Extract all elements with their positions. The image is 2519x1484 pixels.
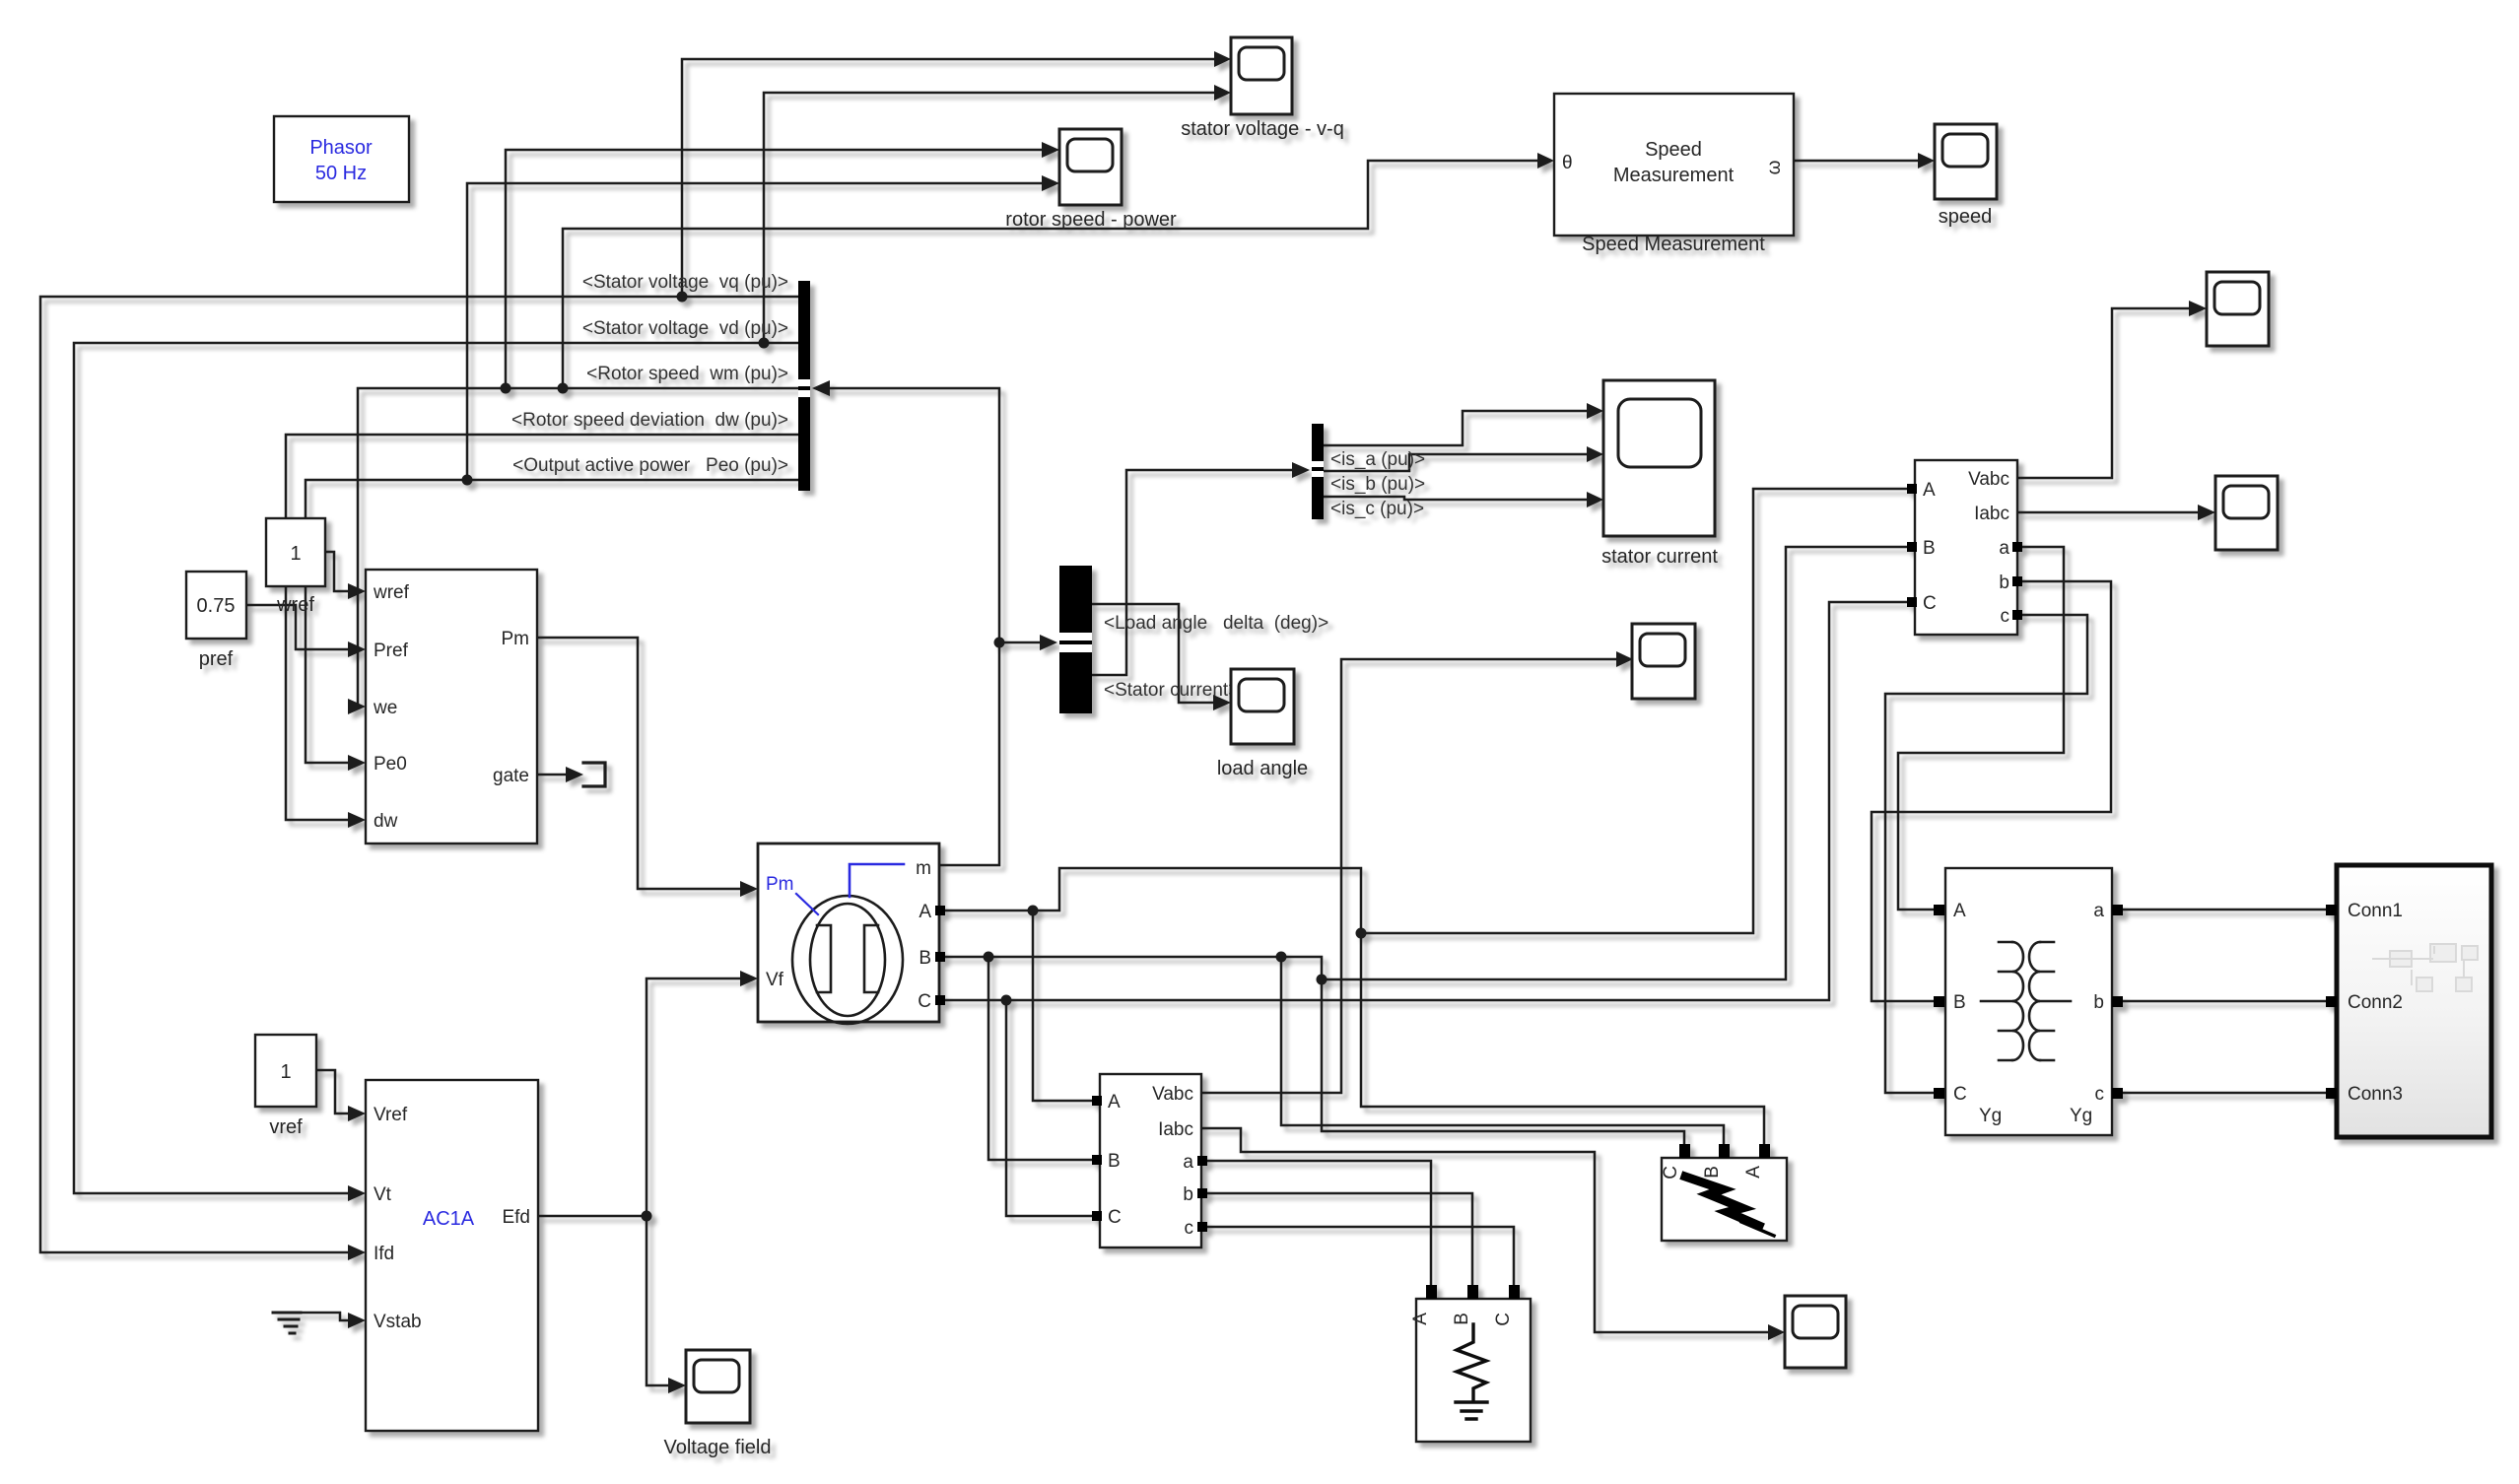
wire B1 Iabc to scope8	[1201, 1128, 1772, 1332]
svg-text:<is_a (pu)>: <is_a (pu)>	[1330, 449, 1425, 470]
svg-text:b: b	[1999, 573, 2009, 593]
svg-text:0.75: 0.75	[197, 595, 236, 617]
arrow into bus2	[1040, 635, 1057, 650]
svg-text:Vabc: Vabc	[1968, 469, 2009, 490]
svg-text:B: B	[1923, 538, 1936, 559]
svg-text:wref: wref	[276, 594, 314, 616]
junction m-bus to bus selector 2	[994, 638, 1005, 648]
svg-text:a: a	[1999, 538, 2009, 559]
right winding	[2029, 942, 2071, 1060]
arrow voltage field scope	[668, 1378, 686, 1393]
svg-text:C: C	[918, 991, 931, 1012]
svg-text:b: b	[1183, 1184, 1193, 1205]
svg-text:stator current: stator current	[1601, 546, 1718, 568]
svg-text:Pref: Pref	[374, 641, 409, 661]
wire B1 b to load B	[1201, 1193, 1472, 1289]
Bus Selector 1	[798, 281, 810, 491]
svg-text:stator voltage - v-q: stator voltage - v-q	[1181, 118, 1344, 140]
svg-text:Yg: Yg	[2070, 1106, 2092, 1126]
svg-text:C: C	[1108, 1207, 1122, 1228]
svg-text:Vstab: Vstab	[374, 1312, 422, 1332]
svg-text:c: c	[2001, 606, 2010, 627]
wire bus2 out1 (load angle) to load angle scope	[1092, 604, 1218, 703]
junction dots	[462, 292, 1367, 1222]
wire governor Pm to machine Pm	[537, 638, 745, 889]
wire bus3 is_a to stator current scope	[1324, 411, 1591, 445]
svg-text:Vt: Vt	[374, 1184, 392, 1205]
svg-text:AC1A: AC1A	[423, 1208, 475, 1230]
svg-text:C: C	[1661, 1166, 1681, 1180]
scope8	[1785, 1296, 1846, 1368]
svg-text:B: B	[919, 948, 931, 969]
bus1 signal labels	[511, 272, 788, 476]
svg-text:Conn2: Conn2	[2348, 992, 2403, 1013]
junction wm row to scope	[501, 383, 511, 394]
scope3	[2207, 272, 2269, 346]
svg-text:B: B	[1452, 1313, 1472, 1325]
svg-text:pref: pref	[199, 648, 234, 670]
svg-text:C: C	[1923, 593, 1937, 614]
scope6 (Vabc)	[1632, 624, 1695, 699]
svg-text:Ifd: Ifd	[374, 1244, 394, 1264]
governor block	[366, 570, 537, 843]
wire bus1 vq row to AC1A Ifd	[40, 297, 800, 1252]
arrow into bus1 (points left)	[812, 380, 830, 396]
svg-text:Iabc: Iabc	[1158, 1119, 1193, 1140]
signal arrowheads	[348, 51, 2215, 1393]
wire phase B branch to B1.B	[988, 957, 1096, 1160]
wire bus1 Peo row to governor Pe0	[306, 480, 800, 763]
wire bus1 wm row to governor we	[353, 388, 800, 707]
junction phase A to B1	[1028, 906, 1039, 916]
svg-text:C: C	[1953, 1084, 1967, 1105]
wire B1 c to load C	[1201, 1227, 1514, 1289]
wire B2 c to transformer C	[1885, 615, 2087, 1093]
wire phase C branch to B1.C	[1006, 1000, 1096, 1216]
svg-text:<Rotor speed wm (pu)>: <Rotor speed wm (pu)>	[586, 364, 788, 384]
svg-text:<Output active power Peo (pu: <Output active power Peo (pu)>	[512, 455, 788, 476]
junction phase B to B1	[984, 952, 994, 963]
svg-text:load angle: load angle	[1217, 758, 1308, 779]
svg-text:a: a	[2093, 901, 2104, 921]
wire vq riser to scope stator voltage in1	[682, 59, 1219, 297]
svg-text:speed: speed	[1939, 206, 1993, 228]
Phasor 50 Hz annotation block	[274, 116, 409, 202]
svg-text:Speed: Speed	[1645, 139, 1702, 161]
wire Peo riser to scope rotor speed in2	[467, 183, 1047, 480]
wire B2 b to transformer B	[1872, 581, 2111, 1001]
svg-text:gate: gate	[493, 766, 529, 786]
scope stator voltage - v-q	[1181, 37, 1344, 140]
Bus Selector 3	[1312, 424, 1324, 519]
svg-text:C: C	[1493, 1313, 1514, 1326]
svg-text:A: A	[1953, 901, 1966, 921]
transformer block	[1934, 868, 2123, 1135]
svg-text:1: 1	[290, 543, 301, 565]
svg-text:Conn1: Conn1	[2348, 901, 2403, 921]
svg-text:b: b	[2093, 992, 2104, 1013]
svg-text:A: A	[1410, 1313, 1431, 1325]
svg-text:B: B	[1108, 1151, 1121, 1172]
Bus Selector 2	[1059, 566, 1092, 713]
arrow gate terminator	[566, 767, 583, 782]
wire wm riser to scope rotor speed in1	[506, 150, 1047, 388]
svg-text:<Stator current>: <Stator current>	[1104, 680, 1239, 701]
wire phase B branch to B2.B	[1322, 547, 1908, 979]
svg-text:<Load angle delta (deg)>: <Load angle delta (deg)>	[1104, 613, 1328, 634]
wire bus3 is_c to stator current scope	[1324, 497, 1591, 500]
scope4	[2215, 476, 2278, 550]
arrows AC1A inputs	[348, 1106, 366, 1121]
svg-text:we: we	[373, 698, 397, 718]
arrow scope8	[1768, 1324, 1785, 1340]
wire phase A branch down to B1.A	[1033, 911, 1096, 1101]
constant pref (0.75)	[186, 572, 246, 670]
scope load angle	[1217, 669, 1308, 779]
arrows scope rotor speed	[1042, 142, 1059, 158]
arrow speed measurement theta	[1537, 153, 1554, 169]
wire phase C of machine to B2.C	[939, 602, 1908, 1000]
svg-text:a: a	[1183, 1152, 1193, 1173]
arrow scope4	[2198, 505, 2215, 520]
measurement block B1	[1092, 1074, 1207, 1248]
wire bus1 vd row to AC1A Vt	[74, 343, 800, 1193]
wire bus3 is_b to stator current scope	[1324, 454, 1591, 471]
wire Speed Measurement omega to speed scope	[1794, 160, 1923, 163]
svg-text:B: B	[1953, 992, 1966, 1013]
wire phase A of machine: to B2.A and fault A	[939, 868, 1764, 1145]
wire transformer a to Conn1	[2118, 909, 2326, 911]
svg-text:Speed Measurement: Speed Measurement	[1582, 234, 1765, 255]
arrow into bus3	[1292, 462, 1310, 478]
wire vd riser to scope stator voltage in2	[764, 93, 1219, 343]
svg-text:50 Hz: 50 Hz	[315, 163, 367, 184]
three-phase RLC load block	[1410, 1285, 1531, 1442]
junction phase C to B1	[1001, 995, 1012, 1006]
arrow load angle scope	[1213, 695, 1231, 710]
svg-text:A: A	[1743, 1166, 1764, 1179]
svg-text:Phasor: Phasor	[309, 137, 373, 159]
junction Peo row	[462, 475, 473, 486]
bus2 signal labels	[1104, 613, 1328, 701]
three-phase fault block	[1661, 1144, 1787, 1241]
svg-text:wref: wref	[373, 582, 410, 603]
wire B1 Vabc to scope6	[1201, 659, 1619, 1093]
constant wref (1)	[266, 518, 325, 616]
arrows scope stator voltage	[1214, 51, 1231, 67]
wire AC1A Efd to machine Vf and Voltage field scope	[538, 978, 745, 1216]
svg-text:c: c	[2095, 1084, 2105, 1105]
wire phase B branch to fault B	[1281, 957, 1724, 1145]
svg-text:Vf: Vf	[766, 970, 784, 990]
svg-text:c: c	[1185, 1218, 1194, 1239]
arrow speed scope	[1918, 153, 1935, 169]
Speed Measurement block	[1554, 94, 1794, 255]
svg-text:Efd: Efd	[502, 1207, 530, 1228]
wire B2 Iabc to scope4	[2017, 511, 2203, 514]
bus3 signal labels	[1330, 449, 1425, 519]
svg-text:<Stator voltage vq (pu)>: <Stator voltage vq (pu)>	[582, 272, 788, 293]
wire constant wref to governor wref	[325, 552, 353, 591]
arrow scope3	[2189, 301, 2207, 316]
arrows governor inputs	[348, 583, 366, 599]
arrows stator current scope	[1587, 403, 1603, 419]
svg-text:Pm: Pm	[766, 874, 794, 895]
svg-text:Pe0: Pe0	[374, 754, 407, 775]
svg-text:vref: vref	[269, 1116, 303, 1138]
terminator for gate	[583, 763, 605, 786]
svg-text:Voltage field: Voltage field	[664, 1437, 772, 1458]
left winding	[1981, 942, 2023, 1060]
junction phase B to fault	[1276, 952, 1287, 963]
svg-text:m: m	[916, 858, 931, 879]
wire constant pref to governor Pref	[246, 605, 353, 649]
measurement block B2	[1907, 460, 2022, 635]
wire constant vref to AC1A Vref	[316, 1070, 353, 1113]
junction phase B to B2	[1317, 975, 1328, 985]
junction phase A to B2	[1356, 928, 1367, 939]
svg-text:Vabc: Vabc	[1152, 1084, 1193, 1105]
svg-text:Vref: Vref	[374, 1105, 408, 1125]
ground symbol	[273, 1313, 301, 1333]
scope Voltage field	[664, 1350, 772, 1458]
svg-text:1: 1	[280, 1061, 291, 1083]
wire transformer b to Conn2	[2118, 1000, 2326, 1003]
scope speed	[1935, 124, 1997, 228]
wire bus2 out2 (stator current) to bus3	[1092, 470, 1299, 675]
junction wm row to speed measurement	[558, 383, 569, 394]
svg-text:<Stator voltage vd (pu)>: <Stator voltage vd (pu)>	[582, 318, 788, 339]
svg-text:Yg: Yg	[1979, 1106, 2002, 1126]
junction vd row	[759, 338, 770, 349]
svg-text:Pm: Pm	[502, 629, 530, 649]
svg-text:<is_c (pu)>: <is_c (pu)>	[1330, 499, 1424, 519]
svg-text:Measurement: Measurement	[1613, 165, 1735, 186]
constant vref (1)	[255, 1035, 316, 1138]
svg-text:dw: dw	[374, 811, 398, 832]
wire transformer c to Conn3	[2118, 1092, 2326, 1095]
AC1A excitation block	[366, 1080, 538, 1431]
machine port squares	[935, 906, 945, 1005]
wire bus1 dw row to governor dw	[286, 435, 800, 820]
wire phase B of machine	[939, 957, 1684, 1145]
svg-text:B: B	[1702, 1166, 1723, 1179]
svg-text:Conn3: Conn3	[2348, 1084, 2403, 1105]
svg-text:A: A	[1923, 480, 1936, 501]
scope rotor speed - power	[1005, 129, 1177, 231]
wire B1 a to load A	[1201, 1161, 1431, 1289]
wire governor gate to terminator	[537, 774, 570, 776]
svg-text:<Rotor speed deviation dw (pu: <Rotor speed deviation dw (pu)>	[511, 410, 788, 431]
wire B2 Vabc to scope3	[2017, 308, 2194, 478]
wire wm riser to Speed Measurement theta	[563, 161, 1541, 388]
synchronous machine block	[758, 843, 939, 1024]
wire m-output of machine to Bus Selector1 (right-side input)	[816, 388, 999, 865]
junction Efd	[642, 1211, 652, 1222]
wire B2 a to transformer A	[1898, 547, 2064, 910]
arrow scope6	[1616, 651, 1633, 667]
arrows machine inputs	[740, 881, 758, 897]
Conn subsystem block	[2326, 865, 2491, 1137]
svg-text:A: A	[1108, 1092, 1121, 1113]
svg-text:ω: ω	[1764, 160, 1785, 174]
svg-text:θ: θ	[1562, 153, 1573, 173]
svg-text:Iabc: Iabc	[1974, 504, 2009, 524]
svg-text:rotor speed - power: rotor speed - power	[1005, 209, 1177, 231]
scope stator current	[1601, 380, 1718, 568]
junction vq row	[677, 292, 688, 303]
wire m branch to Bus Selector2 input	[999, 641, 1043, 644]
wire ground to AC1A Vstab	[299, 1313, 353, 1320]
svg-text:<is_b (pu)>: <is_b (pu)>	[1330, 474, 1425, 495]
svg-text:A: A	[919, 902, 931, 922]
